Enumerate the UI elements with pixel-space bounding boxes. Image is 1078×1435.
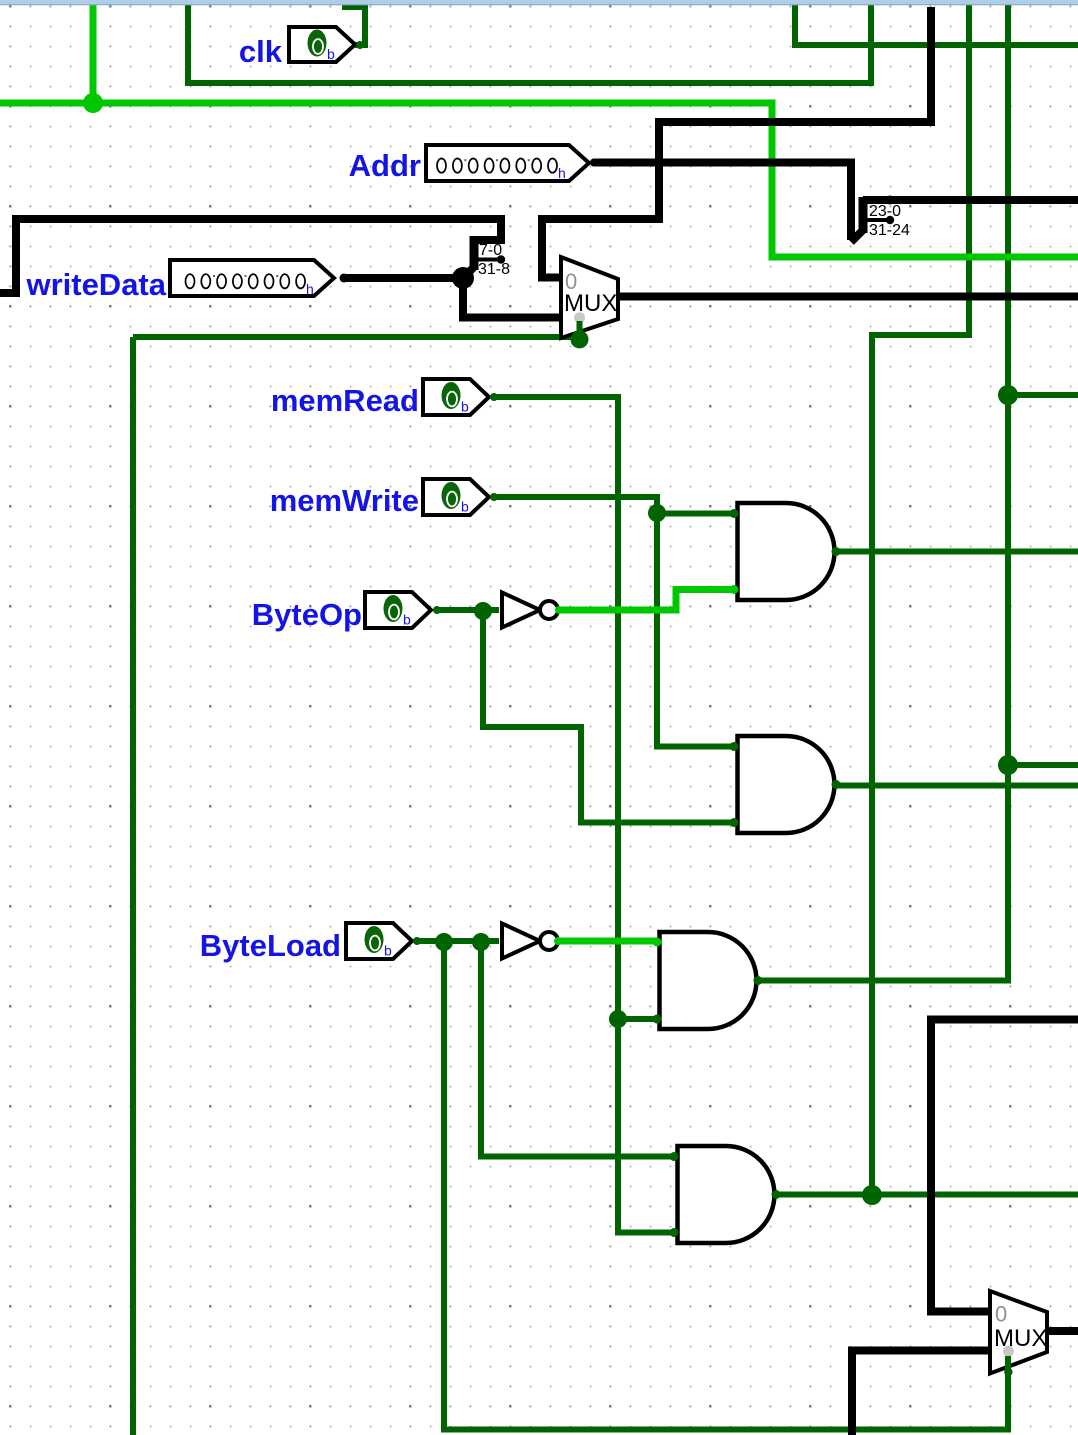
wire AND2 output to right edge — [834, 783, 1078, 789]
wire clk net: pin tip up to top edge — [342, 2, 365, 45]
wire ByteLoad branch 1: down, right along y1423, up to MUX2 select — [444, 941, 1008, 1430]
junction net C at (1008,765) — [998, 755, 1018, 775]
svg-text:ByteOp: ByteOp — [252, 597, 362, 632]
wire bus from right edge y1019, down at x931, right to MUX2 input 0 — [931, 1020, 1078, 1312]
wire bus splitter2 23-0 leg continuation to right edge — [888, 196, 1078, 204]
wire bus from top edge x931 down, left along y122, down at x659, left along y219, down to MUX1 input 0 — [542, 7, 931, 278]
input pin Addr (8 hex digits) — [426, 145, 598, 181]
svg-text:memWrite: memWrite — [270, 483, 419, 518]
junction on bright net at (93,103) — [83, 93, 103, 113]
wire ByteLoad output to inverter input — [415, 938, 499, 944]
wire bright net: left edge along y103, down at x772, right along y257 to edge — [0, 103, 1078, 257]
wire junction to AND1 upper input — [657, 511, 734, 517]
input pin ByteOp — [365, 592, 441, 628]
svg-text:b: b — [403, 612, 411, 628]
wire inverter2 output to AND3 upper input — [556, 938, 659, 945]
wire bus writeData output to junction — [344, 274, 463, 282]
junction writeData bus at (463,278) — [452, 267, 474, 289]
NOT gate (ByteLoad inverter) — [502, 924, 562, 959]
junction net B at (872,1195) — [862, 1185, 882, 1205]
svg-text:MUX: MUX — [994, 1325, 1047, 1352]
junction memWrite net at (657,513) — [648, 504, 666, 522]
junction memRead net at (618,1019) — [609, 1010, 627, 1028]
svg-text:b: b — [461, 399, 469, 415]
input pin writeData (8 hex digits) — [170, 260, 349, 297]
wire ByteOp output to inverter input — [437, 607, 499, 613]
wire bus from left edge y293 up to y219 and right to splitter 7-0 leg corner — [0, 219, 501, 293]
svg-text:memRead: memRead — [271, 383, 419, 418]
junction ByteLoad net at (444,942) — [435, 933, 453, 951]
wire ByteLoad branch 2: down then right to AND4 upper input — [481, 941, 673, 1157]
svg-text:clk: clk — [239, 34, 283, 69]
NOT gate (ByteOp inverter) — [502, 593, 563, 628]
MUX U1 (write data byte select) — [561, 257, 618, 348]
svg-text:23-0: 23-0 — [869, 203, 901, 220]
input pin memRead — [423, 379, 498, 415]
MUX U2 (read data byte select) — [990, 1291, 1047, 1430]
svg-text:7-0: 7-0 — [479, 242, 502, 259]
input pin memWrite — [423, 479, 498, 515]
wire net B: top edge x969 down to y335, left to x872, down to junction y1195 — [872, 2, 969, 1195]
svg-text:Addr: Addr — [349, 148, 421, 183]
wire net A: top edge x188 down, right along y83, up to top at x871 — [188, 2, 871, 83]
svg-text:MUX: MUX — [564, 290, 617, 317]
wire bus MUX2 input 1 from bottom edge x852 — [852, 1351, 991, 1435]
wire bus MUX1 output to right edge — [618, 293, 1078, 301]
wire long vertical at x133 down to bottom edge — [130, 337, 136, 1435]
junction ByteOp net at (483,611) — [474, 602, 492, 620]
AND gate 2 (memWrite & ByteOp) — [730, 736, 841, 833]
svg-text:h: h — [306, 281, 314, 297]
svg-text:31-24: 31-24 — [869, 222, 910, 239]
wire memRead output: right then long down to AND4 lower input — [493, 397, 673, 1233]
AND gate 1 (memWrite & !ByteOp) — [730, 503, 841, 600]
wire net C branch right at y395 — [1008, 392, 1078, 398]
wire bus junction down and right to MUX1 input 1 — [463, 278, 562, 318]
svg-text:b: b — [461, 499, 469, 515]
wire net C branch right at y765 — [1008, 762, 1078, 768]
wire inverter1 output to AND1 lower input with jog — [557, 590, 734, 611]
svg-text:writeData: writeData — [25, 267, 166, 302]
wire memRead branch to AND3 lower input — [618, 1016, 658, 1022]
input pin ByteLoad — [346, 923, 421, 959]
AND gate 3 (!ByteLoad & memRead) — [653, 932, 763, 1029]
junction net C at (1008,395) — [998, 385, 1018, 405]
wire MUX1 select: from left-edge column along y338 — [133, 334, 575, 340]
splitter S2 Addr 23-0 / 31-24 — [851, 196, 910, 243]
wire bus MUX2 output to right edge — [1045, 1327, 1078, 1335]
wire net D: top edge x795 down to y45 then right to edge — [795, 2, 1078, 45]
svg-text:31-8: 31-8 — [478, 261, 510, 278]
svg-text:b: b — [384, 943, 392, 959]
junction ByteLoad net at (481,942) — [472, 933, 490, 951]
svg-text:0: 0 — [995, 1302, 1007, 1327]
splitter S1 writeData 7-0 / 31-8 — [463, 236, 510, 278]
wire bright net: top edge x93 down to junction at y103 — [90, 2, 97, 103]
svg-text:h: h — [558, 165, 566, 181]
svg-text:ByteLoad: ByteLoad — [200, 928, 341, 963]
wire bus Addr output right then down to splitter 2 — [593, 163, 851, 241]
wire junction down to AND2 upper input — [657, 513, 734, 747]
wire memWrite output: right then down to junction — [493, 497, 657, 513]
wire ByteOp branch down and over to AND2 lower input — [483, 610, 734, 823]
AND gate 4 (ByteLoad & memRead) — [670, 1146, 781, 1243]
input pin clk — [289, 27, 364, 62]
wire AND4 output to right edge — [775, 1192, 1078, 1198]
svg-text:b: b — [327, 46, 335, 62]
wire net C: top edge x1008 down to y980, left to AND3 output — [758, 2, 1008, 981]
wire AND1 output to right edge — [834, 549, 1078, 555]
